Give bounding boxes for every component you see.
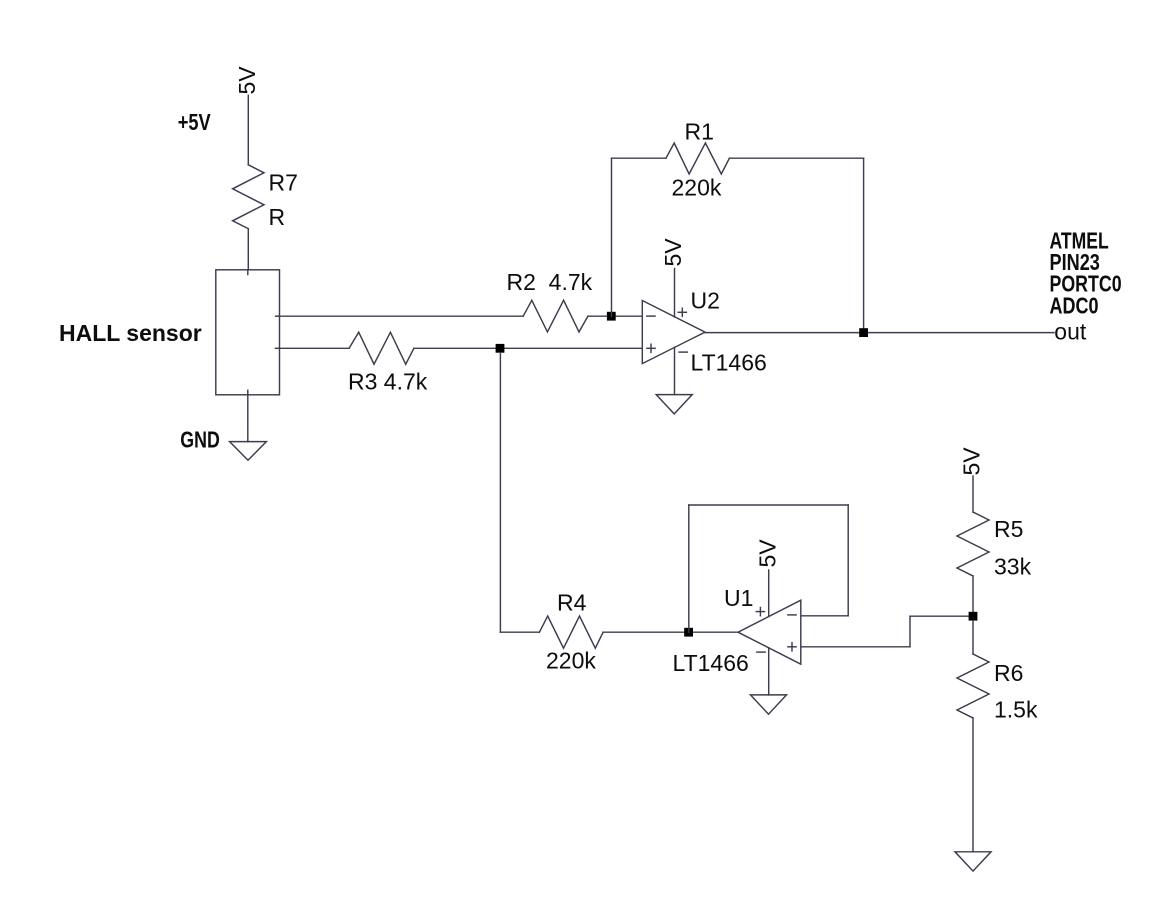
node 5V supply label (top-left) [234, 66, 260, 95]
wire U1 V- to ground [768, 648, 770, 695]
label ATMEL [1050, 227, 1109, 253]
pin V- marker (U2) [679, 351, 687, 353]
node junction divider [969, 612, 978, 621]
wire feedback top right [729, 157, 863, 159]
svg-text:LT1466: LT1466 [673, 650, 749, 676]
label GND [180, 426, 220, 452]
resistor R6 [957, 654, 989, 718]
node 5V supply label (U2) [660, 238, 686, 267]
wire R6 to ground [972, 718, 974, 852]
node junction R2/R1 [607, 312, 616, 321]
wire HALL pin2 to R3 [280, 347, 350, 349]
wire U2 output [705, 332, 1054, 334]
resistor R4 [539, 616, 603, 648]
value 33k [994, 554, 1032, 580]
svg-text:R3 4.7k: R3 4.7k [348, 369, 428, 395]
svg-text:5V: 5V [959, 447, 985, 476]
label R2 4.7k [507, 269, 593, 295]
label R5 [994, 516, 1023, 542]
label HALL sensor [59, 320, 202, 346]
wire 5V to U1 V+ [768, 570, 770, 616]
wire 5V to U2 V+ [674, 269, 676, 318]
wire R2 to U2 inverting input [588, 315, 642, 317]
wire 5V to R5 [972, 476, 974, 512]
pin minus (U2 inverting) [647, 315, 655, 317]
wire U1 feedback to inverting input [801, 615, 848, 617]
svg-text:R: R [269, 204, 286, 230]
svg-text:R6: R6 [994, 660, 1023, 686]
svg-text:R5: R5 [994, 516, 1023, 542]
wire U1 feedback down [847, 505, 849, 616]
wire feedback up from node [611, 158, 613, 316]
svg-text:R4: R4 [557, 590, 587, 616]
wire divider jog up [909, 616, 911, 647]
svg-text:GND: GND [180, 426, 220, 452]
pin V+ marker (U1) [756, 608, 764, 616]
wire R7 to HALL sensor [247, 229, 249, 270]
pin top tick [247, 270, 249, 275]
wire HALL pin1 to R2 [280, 315, 524, 317]
pin minus (U1 inverting) [788, 614, 796, 616]
svg-text:R1: R1 [685, 118, 714, 144]
svg-text:R7: R7 [269, 170, 298, 196]
value 1.5k [994, 697, 1038, 723]
HALL sensor body [216, 270, 280, 395]
svg-text:ADC0: ADC0 [1050, 292, 1099, 318]
label PIN23 [1050, 249, 1100, 275]
label R3 4.7k [348, 369, 428, 395]
node junction R3/R4 [496, 344, 505, 353]
svg-text:220k: 220k [672, 175, 722, 201]
svg-text:R2 4.7k: R2 4.7k [507, 269, 593, 295]
pin plus (U2 non-inverting) [647, 344, 655, 352]
svg-text:5V: 5V [755, 539, 781, 568]
node +5V label [178, 109, 212, 135]
svg-text:1.5k: 1.5k [994, 697, 1038, 723]
label PORTC0 [1050, 271, 1122, 297]
resistor R7 [233, 165, 264, 229]
wire R3 to U2 non-inverting input [414, 347, 642, 349]
svg-text:220k: 220k [546, 648, 596, 674]
wire 5V to R7 [247, 95, 249, 165]
node 5V supply label (U1) [755, 539, 781, 568]
svg-text:33k: 33k [994, 554, 1032, 580]
label R6 [994, 660, 1023, 686]
svg-text:U2: U2 [691, 288, 720, 314]
label R4 [557, 590, 587, 616]
node output junction [859, 328, 868, 337]
wire node to R6 [972, 621, 974, 654]
svg-text:U1: U1 [724, 585, 753, 611]
wire U2 V- to ground [674, 347, 676, 394]
node junction R4/U1 [684, 628, 693, 637]
label ADC0 [1050, 292, 1099, 318]
label out [1054, 319, 1087, 345]
wire feedback top left [612, 157, 667, 159]
pin V- marker (U1) [757, 651, 765, 653]
ground (divider) [955, 852, 991, 871]
svg-text:out: out [1054, 319, 1087, 345]
wire U1 non-inverting to divider [801, 646, 910, 648]
pin V+ marker (U2) [678, 308, 686, 316]
label LT1466 (U2) [691, 350, 767, 376]
resistor R2 [523, 300, 588, 332]
svg-text:5V: 5V [660, 238, 686, 267]
pin right-1 tick [276, 315, 280, 317]
label LT1466 (U1) [673, 650, 749, 676]
wire R4 to U1 output [603, 631, 738, 633]
svg-text:LT1466: LT1466 [691, 350, 767, 376]
wire HALL to ground [247, 395, 249, 442]
wire node to R4 (vertical) [499, 353, 501, 633]
pin plus (U1 non-inverting) [788, 643, 796, 651]
wire R5 to node [972, 576, 974, 616]
resistor R1 [666, 143, 729, 174]
node 5V supply label (divider) [959, 447, 985, 476]
svg-text:+5V: +5V [178, 109, 212, 135]
wire divider to node [910, 615, 973, 617]
value 220k (R4) [546, 648, 596, 674]
op-amp U2 [642, 301, 705, 364]
resistor R5 [957, 512, 989, 576]
op-amp U1 [738, 600, 801, 664]
resistor R3 [349, 332, 414, 364]
pin right-2 tick [276, 347, 280, 349]
svg-text:HALL sensor: HALL sensor [59, 320, 202, 346]
value 220k (R1) [672, 175, 722, 201]
label R7 [269, 170, 298, 196]
wire to R4 [500, 631, 539, 633]
ground (U1) [751, 695, 787, 714]
label U2 [691, 288, 720, 314]
pin bottom tick [247, 390, 249, 395]
wire feedback down to output [863, 158, 865, 332]
wire U1 feedback top [689, 504, 848, 506]
ground (HALL) [230, 442, 267, 461]
svg-text:5V: 5V [234, 66, 260, 95]
label U1 [724, 585, 753, 611]
value label R [269, 204, 286, 230]
label R1 [685, 118, 714, 144]
wire U1 feedback up [688, 505, 690, 632]
ground (U2) [656, 395, 692, 414]
